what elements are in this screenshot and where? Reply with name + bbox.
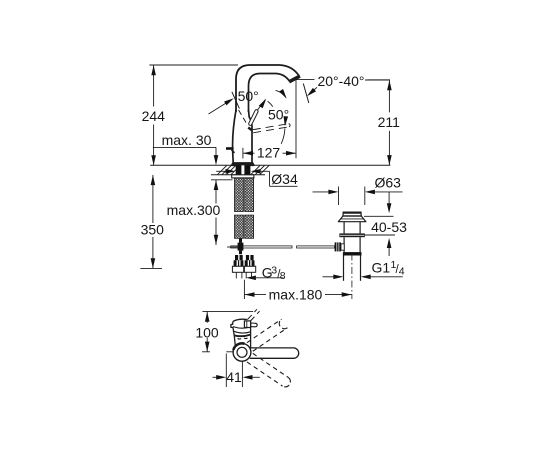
dimension dia 63 [313, 175, 403, 205]
dimension 127 [243, 145, 296, 161]
dashed lever alternate [247, 309, 259, 321]
svg-text:50°: 50° [238, 88, 259, 104]
svg-text:50°: 50° [268, 107, 289, 123]
jet direction line [303, 84, 309, 104]
svg-text:4: 4 [399, 265, 405, 277]
svg-text:G1: G1 [372, 259, 391, 275]
handle pivot joint [248, 128, 252, 131]
swivel angle arc right [276, 89, 287, 99]
dimension dia 34 [216, 169, 298, 187]
dimension max 300 [165, 180, 233, 245]
faucet spout [236, 65, 300, 112]
deck hatching [218, 166, 270, 175]
side view faucet body [231, 319, 251, 348]
handle lever [250, 100, 265, 124]
extension line spout outlet [295, 80, 297, 159]
label 50 deg swivel [238, 88, 259, 104]
handle angle arc lower [281, 116, 288, 144]
svg-text:211: 211 [378, 114, 401, 130]
svg-text:350: 350 [141, 222, 165, 238]
handle angle arc upper [259, 99, 273, 109]
faucet body [233, 110, 252, 163]
svg-text:41: 41 [226, 369, 242, 385]
svg-text:100: 100 [195, 324, 219, 340]
swivelled spout dashed edge [239, 110, 247, 123]
svg-text:max. 30: max. 30 [162, 132, 212, 148]
pop-up rod [227, 239, 335, 255]
svg-text:127: 127 [257, 145, 281, 161]
svg-text:8: 8 [280, 270, 286, 282]
dimension 41 [213, 354, 260, 388]
svg-text:Ø63: Ø63 [374, 175, 401, 191]
G 3/8 connection nuts [232, 255, 255, 278]
dimension 244 [142, 65, 166, 165]
flexible connection hoses [235, 178, 254, 238]
spout capsule solid [250, 348, 299, 358]
deck mounting surface [150, 165, 390, 175]
threaded shank [236, 165, 251, 177]
pop-up pull-rod knob [226, 147, 235, 153]
pop-up drain assembly [335, 213, 366, 281]
swivel base circle [233, 343, 251, 361]
base flange [232, 163, 254, 165]
spout swivel radial line [232, 92, 240, 109]
top extension line [149, 64, 238, 66]
dimension 211 [365, 80, 400, 165]
svg-text:244: 244 [142, 108, 166, 124]
side view lever [244, 321, 257, 328]
spout capsule dashed lower [247, 353, 290, 387]
label 20-40 deg with leader [296, 73, 390, 96]
spout capsule dashed upper [247, 319, 287, 351]
svg-text:Ø34: Ø34 [271, 171, 298, 187]
dimension max 180 [244, 280, 351, 303]
svg-text:40-53: 40-53 [371, 219, 407, 235]
dashed handle alternate position [253, 124, 290, 133]
dimension 40-53 [364, 192, 407, 256]
svg-text:max.300: max.300 [167, 202, 221, 218]
dimension 350 [140, 175, 164, 269]
mounting washer [232, 175, 254, 178]
label 50 deg handle [268, 107, 289, 123]
label G1 1/4 [323, 259, 405, 279]
swivel angle leader left [209, 98, 234, 114]
drain centerline [351, 254, 353, 300]
dimension max 30 [153, 132, 218, 165]
label G 3/8 [246, 265, 286, 282]
svg-text:20°-40°: 20°-40° [317, 73, 364, 89]
svg-text:max.180: max.180 [269, 287, 323, 303]
dimension 100 [195, 311, 253, 351]
